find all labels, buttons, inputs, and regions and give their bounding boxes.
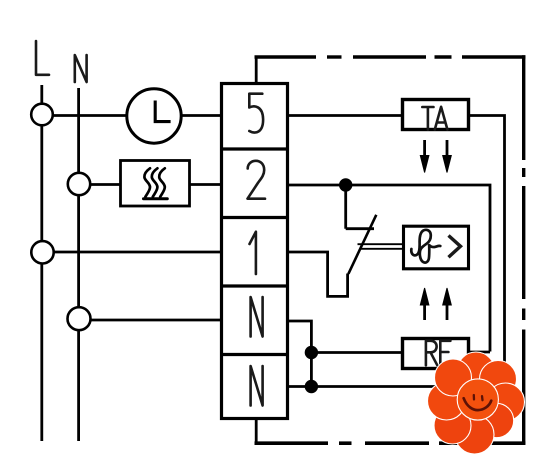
terminal 2 digit xyxy=(248,161,266,199)
switch blade xyxy=(348,215,376,274)
wire RF to junction xyxy=(311,351,401,354)
wire L circle to terminal 1 xyxy=(54,251,220,254)
arrow down left (below TA) xyxy=(420,140,429,173)
terminal block divider N/N xyxy=(220,353,289,356)
wire L supply line xyxy=(40,85,43,441)
flower logo face xyxy=(457,379,498,420)
enclosure border right dash-dot xyxy=(522,55,525,445)
label N xyxy=(75,55,87,82)
wire N circle to heater xyxy=(90,183,120,186)
enclosure border top dash-dot xyxy=(255,55,526,58)
actuator link double line xyxy=(358,244,403,249)
wire terminal N upper to rail xyxy=(289,321,311,387)
wire terminal 2 to right rail xyxy=(289,185,490,352)
label greater-than xyxy=(449,236,461,258)
heater element box xyxy=(121,161,190,207)
junction dot RF tap xyxy=(305,346,318,359)
flower logo smile xyxy=(464,398,492,410)
label TA xyxy=(422,107,447,130)
terminal block divider 2/1 xyxy=(220,216,289,219)
flower logo petals xyxy=(428,352,525,454)
terminal block divider 5/2 xyxy=(220,147,289,150)
arrow down right (below TA) xyxy=(443,140,452,173)
box TA xyxy=(403,100,469,130)
switch fixed contact xyxy=(346,185,374,229)
label RF xyxy=(426,341,451,366)
heater wavy symbol xyxy=(144,168,168,198)
wire heater to terminal 2 xyxy=(190,183,221,186)
node terminal circle on L (to clock) xyxy=(31,104,53,126)
terminal block divider 1/N xyxy=(220,284,289,287)
label theta xyxy=(411,230,440,263)
node terminal circle on N (to terminal N) xyxy=(68,307,91,330)
arrow up right (above RF) xyxy=(443,288,452,320)
wire N supply line xyxy=(77,88,80,441)
wire L circle to clock xyxy=(53,114,127,117)
junction dot N join xyxy=(305,380,318,393)
terminal N digit lower xyxy=(251,366,263,406)
arrow up left (above RF) xyxy=(420,288,429,320)
wire stub terminal block top to border xyxy=(255,56,258,84)
node terminal circle on N (to heater) xyxy=(68,173,90,195)
label L xyxy=(36,41,49,75)
wire terminal N lower to right rail xyxy=(289,385,505,388)
terminal block outline xyxy=(222,84,288,419)
wire terminal 1 to switch pivot (U route) xyxy=(289,252,348,296)
clock switch symbol xyxy=(127,89,181,143)
enclosure border bottom dash-dot xyxy=(255,441,526,445)
terminal 1 digit xyxy=(250,232,256,274)
flower logo eyes xyxy=(474,395,483,400)
wire TA to right rail xyxy=(469,116,505,388)
wire terminal 5 to TA xyxy=(289,114,401,117)
wire N circle to terminal N xyxy=(91,319,221,322)
node terminal circle on L (to terminal 1) xyxy=(31,241,53,263)
terminal 5 digit xyxy=(249,94,263,133)
wire stub terminal block bottom to border xyxy=(255,419,258,445)
terminal N digit upper xyxy=(251,297,263,337)
wire RF to rail xyxy=(468,351,491,354)
box thermostat xyxy=(404,226,469,269)
wire clock to terminal 5 xyxy=(181,114,221,117)
box RF xyxy=(403,339,469,369)
junction dot switch tap xyxy=(339,178,352,191)
